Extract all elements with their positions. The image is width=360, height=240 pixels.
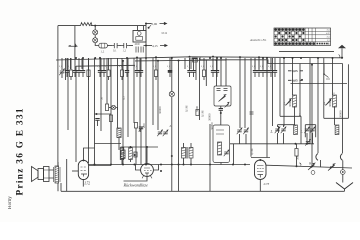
lower lead of resistor row A7 <box>88 77 90 81</box>
wire v x263 short <box>262 58 264 69</box>
output tube I (stadium) <box>78 160 88 179</box>
wire y147 horizontal <box>121 146 159 148</box>
lead of capacitor row D2 <box>193 58 195 70</box>
svg-text:0,1: 0,1 <box>268 66 271 68</box>
junction bus x318 <box>317 57 319 59</box>
wire tube I left stub <box>72 170 78 172</box>
lead of capacitor row A2 <box>66 58 68 70</box>
svg-text:0,1M: 0,1M <box>201 110 206 117</box>
svg-text:30000: 30000 <box>158 106 162 114</box>
tuning capacitor CT8 <box>310 127 316 134</box>
capacitor under can I <box>219 109 223 111</box>
wire v x128 mid <box>127 58 129 137</box>
capacitor row E1 <box>253 71 257 73</box>
junction lower 0,05 leader <box>301 79 303 81</box>
lower lead of resistor row D3 <box>203 77 205 81</box>
AVC line with corner <box>200 57 343 64</box>
wire tube II left pin <box>136 165 141 171</box>
lead of capacitor row D4 <box>212 58 214 70</box>
lead of trimmer capacitor row A <box>61 58 63 70</box>
junction bus x259 <box>258 56 260 58</box>
wire antenna branch down <box>342 168 344 170</box>
wire R7 down <box>135 128 137 165</box>
svg-text:0,06: 0,06 <box>152 22 158 27</box>
capacitor C5 below box <box>141 47 143 53</box>
wire v x280 <box>279 58 281 116</box>
resistor R8 <box>134 152 137 157</box>
coil L9 <box>129 148 133 160</box>
wire v x58 to output transformer <box>57 60 59 166</box>
svg-text:0,1: 0,1 <box>97 66 100 68</box>
capacitor row E4 <box>265 71 269 73</box>
lower lead of capacitor row B2 <box>103 72 105 77</box>
wire v x323.8 <box>323 58 325 99</box>
arrowhead of 4,15 lead <box>160 45 167 47</box>
wire arrow lead 0,06 <box>146 23 152 25</box>
coil inside can II <box>218 142 222 155</box>
wire L8 L9 bottoms <box>122 160 131 165</box>
junction bus x100 <box>99 57 101 59</box>
wire v x70.5 short <box>70 58 72 69</box>
tuning capacitor CT3 <box>237 128 243 135</box>
junction y164.5 x146 <box>145 164 147 166</box>
wire stub x320 lower <box>320 160 322 167</box>
coil L1 <box>117 128 121 138</box>
lower lead of capacitor row D5 <box>216 72 218 77</box>
wire v x318 to heater coil <box>317 58 319 153</box>
svg-text:0,5: 0,5 <box>122 96 127 100</box>
wire CT pair down <box>240 134 247 144</box>
wire tube II right pin <box>153 165 158 171</box>
variable inductor arrow L7 <box>323 99 332 107</box>
wire v x342.8 lower <box>342 161 344 168</box>
lead of capacitor row E5 <box>270 58 272 70</box>
capacitor row A5 <box>77 71 81 73</box>
wire v x294.5 coil bottom <box>294 107 296 125</box>
junction y164.5 x245 <box>244 164 246 166</box>
wire v x251 <box>250 58 252 157</box>
switch contact mark <box>149 25 151 28</box>
wire v x65.5 short lead <box>65 58 67 80</box>
resistor R5 mid <box>105 104 108 111</box>
resistor row A7 <box>87 70 90 77</box>
svg-text:Ansicht=Nr.: Ansicht=Nr. <box>249 38 267 42</box>
capacitor row D4 <box>211 71 215 73</box>
phone jack circle <box>311 171 315 175</box>
wire coil pair leads <box>184 143 192 165</box>
junction mid node <box>96 113 98 115</box>
switch squiggle right bottom <box>300 163 302 166</box>
bus third segment <box>76 64 135 67</box>
wire v x348.4 <box>347 64 349 118</box>
lower lead of trimmer capacitor row A <box>61 73 63 78</box>
earth symbol <box>336 183 353 190</box>
lead of resistor row C3 <box>155 58 157 70</box>
junction bus x95.2 <box>94 25 96 27</box>
wire v x324 short <box>323 64 325 75</box>
svg-text:0,1: 0,1 <box>153 66 156 68</box>
svg-text:0,1: 0,1 <box>252 66 255 68</box>
svg-text:0,05: 0,05 <box>292 69 298 73</box>
wire top horizontal after resistor <box>91 25 147 27</box>
capacitor row A4 <box>73 71 77 73</box>
tube socket table <box>274 28 331 46</box>
junction y164.5 x94.5 <box>94 164 96 166</box>
svg-text:0,1: 0,1 <box>113 50 117 53</box>
junction y164.5 x191 <box>190 164 192 166</box>
junction bus x189.5 <box>189 56 191 58</box>
pilot lamp La4 mid <box>169 92 174 97</box>
wire v x68 mid <box>67 58 69 130</box>
wire right varcap box <box>305 125 315 138</box>
junction y164.5 x161 <box>160 164 162 166</box>
tuning capacitor CT4 <box>243 128 249 135</box>
svg-text:4000: 4000 <box>135 43 141 46</box>
switch contact bottom a <box>308 163 315 170</box>
wire mains left drop <box>74 26 76 59</box>
svg-text:L72: L72 <box>84 181 91 185</box>
svg-text:0,1: 0,1 <box>260 66 263 68</box>
svg-text:0,1: 0,1 <box>134 66 137 68</box>
wire mid horizontal <box>95 113 112 115</box>
lead of capacitor row C2 <box>140 58 142 70</box>
junction y164.5 x233 <box>232 164 234 166</box>
svg-text:0,1: 0,1 <box>210 66 213 68</box>
svg-text:L: L <box>270 130 273 134</box>
label 0,05 upper with leader <box>288 69 303 73</box>
wire transformer bottom down <box>58 183 61 191</box>
resistor R9 right <box>295 149 298 157</box>
wire v x334.5 coil bottom <box>334 107 336 125</box>
svg-text:30: 30 <box>308 162 312 166</box>
svg-text:L: L <box>300 130 303 134</box>
junction bus x146 <box>145 45 147 47</box>
wire v x284 lower <box>283 116 285 126</box>
junction switch node <box>148 27 150 29</box>
capacitor row E5 <box>269 71 273 73</box>
lead of resistor row B4 <box>121 58 123 70</box>
capacitor row B5 <box>125 71 129 73</box>
wire v x206.3 <box>205 60 207 86</box>
lead of resistor row A3 <box>70 58 72 70</box>
rectifier tube III (stadium) <box>255 160 267 180</box>
wire tube I grid line right <box>89 165 111 167</box>
junction y164.5 x111 <box>110 164 112 166</box>
lower lead of capacitor row C4 (filled) <box>169 72 171 77</box>
wire speaker to transformer <box>49 170 54 178</box>
wire tuned circuit drops <box>278 125 313 144</box>
junction bus x171.8 <box>171 57 173 59</box>
svg-text:M 24: M 24 <box>162 32 168 35</box>
lower lead of capacitor row E2 <box>258 72 260 77</box>
rotated coil value labels right <box>201 101 343 161</box>
svg-text:Horny: Horny <box>8 196 13 209</box>
padder capacitor CT9 <box>305 139 311 146</box>
wire v x240 <box>239 58 241 128</box>
lead of capacitor row C4 (filled) <box>169 58 171 70</box>
lead of capacitor row A4 <box>74 58 76 70</box>
junction bus x137 <box>136 57 138 59</box>
coil pair L3/L4 with core <box>182 147 194 159</box>
junction at capacitor row E3 <box>262 57 264 59</box>
trimmer arrow at C11 <box>139 126 144 132</box>
resistor row B4 <box>120 70 123 77</box>
switch contact right upper <box>323 73 330 79</box>
junction bus x213 <box>212 56 214 58</box>
svg-text:L: L <box>298 113 301 117</box>
wire top horizontal to resistor <box>58 25 81 27</box>
svg-text:3000: 3000 <box>288 101 292 108</box>
junction bus x332.5 <box>332 57 334 59</box>
resistor row B3 <box>107 70 110 77</box>
lead of capacitor row C1 <box>136 58 138 70</box>
wire v x259 short <box>258 58 260 69</box>
wire lamp to earth <box>342 174 344 182</box>
wire R9 down <box>296 156 298 166</box>
junction y164.5 x134.5 <box>134 164 136 166</box>
svg-text:0,1: 0,1 <box>167 66 170 68</box>
junction y164.5 x210 <box>209 164 211 166</box>
wire v x245 <box>244 58 246 128</box>
wire v x171 upper <box>171 58 173 92</box>
wire lamp right <box>116 108 118 111</box>
wire L2 down <box>122 159 124 165</box>
wire v x178.5 long <box>178 61 180 192</box>
wire v x342.5 to heater coil <box>342 64 344 154</box>
resistor R10 left of can <box>196 110 199 116</box>
wire box right stub <box>144 45 153 47</box>
svg-text:30000: 30000 <box>210 122 214 130</box>
junction at capacitor row D5 <box>216 57 218 59</box>
junction bus x123 <box>122 60 124 62</box>
wire v x88.5 long <box>88 58 90 163</box>
lead of resistor row D3 <box>203 58 205 70</box>
wire v x226 to can I <box>225 58 227 86</box>
coil L2 <box>121 150 125 159</box>
wire v x301 lower <box>300 116 302 144</box>
wire v x111 long <box>110 58 112 165</box>
svg-text:0,1: 0,1 <box>201 66 204 68</box>
switch contact bottom b <box>328 164 335 171</box>
junction bus x158 <box>157 60 159 62</box>
wire transformer drop <box>145 24 147 59</box>
capacitor row A2 <box>65 71 69 73</box>
lower lead of capacitor row D2 <box>193 72 195 77</box>
coil L8 <box>120 148 124 160</box>
junction L9 top <box>130 146 132 148</box>
switch squiggle at antenna foot <box>339 55 340 58</box>
lead of capacitor row B2 <box>103 58 105 70</box>
junction under can I <box>220 112 222 114</box>
lower lead of capacitor row D4 <box>212 72 214 77</box>
wire earth to bottom bus <box>344 189 346 191</box>
component box on bus <box>192 58 197 62</box>
junction right bottom b <box>330 166 332 168</box>
wire v x255 short <box>254 58 256 69</box>
junction y164.5 x183.5 <box>183 164 185 166</box>
junction bus x312 <box>311 64 313 66</box>
wire v x278.5 lower <box>278 126 280 133</box>
capacitor row D5 <box>215 71 219 73</box>
lead of capacitor row A6 <box>82 58 84 70</box>
wire v x267 to tube III <box>266 58 268 158</box>
wire right loop bottom <box>324 117 349 119</box>
wire lamp branch <box>94 26 96 30</box>
arrowhead of 0,06 lead <box>160 23 167 25</box>
bus second segment <box>135 59 226 62</box>
wire v x82 short <box>81 58 83 69</box>
variable inductor arrow L6 <box>283 99 292 107</box>
rotated value labels middle <box>100 96 313 165</box>
svg-text:0,1: 0,1 <box>59 66 62 68</box>
wire v x171 lower <box>171 97 173 191</box>
junction tube II top on y147 <box>146 146 148 148</box>
lead of capacitor row B1 <box>99 58 101 70</box>
svg-text:31: 31 <box>333 92 336 95</box>
loudspeaker <box>32 167 50 182</box>
IF transformer can II <box>213 125 230 163</box>
wire v x117.5 to coil <box>117 58 119 128</box>
small component x251 <box>250 112 254 114</box>
resistor R7 <box>134 123 137 129</box>
wire R5 to lamp <box>109 107 112 109</box>
svg-text:30000: 30000 <box>339 110 343 118</box>
wire C10 down <box>97 120 99 126</box>
wire v x292.5 coil top <box>292 58 294 95</box>
junction tube I top cap <box>83 159 85 161</box>
wire v x158 to varcap <box>157 61 159 130</box>
junction y164.5 x178.5 <box>178 164 180 166</box>
lead of capacitor row E2 <box>258 58 260 70</box>
wire v x284 upper <box>283 58 285 116</box>
svg-text:L: L <box>169 124 172 128</box>
tuning capacitor CT2 <box>163 130 169 137</box>
lower lead of capacitor row D1 <box>189 72 191 77</box>
svg-text:0,1M: 0,1M <box>185 105 190 112</box>
lower lead of resistor row B3 <box>108 77 110 81</box>
junction bus x301 <box>300 57 302 59</box>
wire v x140 <box>139 58 141 132</box>
svg-text:30000: 30000 <box>207 113 211 121</box>
lower lead of capacitor row B1 <box>99 72 101 77</box>
svg-text:0,1: 0,1 <box>68 66 71 68</box>
lead of capacitor row E1 <box>254 58 256 70</box>
junction bus x95.2 <box>94 57 96 59</box>
capacitor row E6 <box>273 71 277 73</box>
wire v x220.8 between cans <box>220 106 222 125</box>
wire R9 top lead <box>296 144 298 149</box>
wire C1 to C2 <box>107 45 112 47</box>
lower lead of capacitor row C2 <box>140 72 142 77</box>
wire C2 to C3 <box>119 45 122 47</box>
wire v x210 lower <box>209 124 211 191</box>
IF transformer can I <box>214 86 231 106</box>
capacitor row B2 <box>102 71 106 73</box>
wire v x216.5 <box>216 60 218 86</box>
wire v x221 to can I <box>220 58 222 86</box>
svg-text:0,1: 0,1 <box>187 66 190 68</box>
wire v x233.5 can to y164.5 <box>233 144 235 165</box>
junction at capacitor row B5 <box>126 57 128 59</box>
lead of capacitor row D5 <box>216 58 218 70</box>
svg-text:4,15: 4,15 <box>152 44 158 49</box>
capacitor row D2 <box>191 71 195 73</box>
wire tube II top lead <box>146 147 148 164</box>
svg-text:50: 50 <box>100 97 104 101</box>
wire tube I bottom lead <box>82 180 84 187</box>
mains entry box (fuse holder) <box>133 31 146 43</box>
junction bus x146 <box>145 57 147 59</box>
capacitor C10 mid-left <box>95 119 99 121</box>
junction x134 y155 <box>134 154 136 156</box>
lower lead of capacitor row C1 <box>136 72 138 77</box>
svg-text:2/73: 2/73 <box>264 182 270 186</box>
capacitor row B1 <box>98 71 102 73</box>
svg-text:0,1M: 0,1M <box>250 148 255 155</box>
junction bus x221 <box>220 57 222 59</box>
capacitor C3 <box>122 43 129 48</box>
lower lead of capacitor row A4 <box>74 72 76 77</box>
junction bus x178.5 <box>178 60 180 62</box>
lower lead of resistor row B4 <box>121 77 123 81</box>
junction bus x210 <box>209 57 211 59</box>
wire v x332.5 coil top <box>332 58 334 95</box>
svg-text:0,1: 0,1 <box>119 66 122 68</box>
junction bus x76 <box>75 57 77 59</box>
resistor row D3 <box>202 70 205 77</box>
junction y164.5 x123 <box>122 164 124 166</box>
wire L1 down <box>118 138 120 151</box>
wire v x196 <box>195 58 197 80</box>
junction bus x240 <box>239 56 241 58</box>
svg-text:1,2: 1,2 <box>101 50 105 55</box>
junction antenna foot <box>341 57 343 59</box>
lower lead of capacitor row E4 <box>266 72 268 77</box>
wire box risers <box>138 26 144 31</box>
lower lead of resistor row A3 <box>70 77 72 81</box>
triode tube II (circle) <box>141 164 154 179</box>
capacitor row A6 <box>81 71 85 73</box>
wire right bottom horizontal <box>266 165 352 168</box>
junction y143.8 a <box>295 143 297 145</box>
resistor R6 mid <box>109 115 112 122</box>
lower lead of capacitor row E3 <box>262 72 264 77</box>
junction R9 on bottom line <box>296 165 298 167</box>
oscillator coil L6 upper <box>293 95 297 107</box>
lower lead of capacitor row A5 <box>78 72 80 77</box>
wire R6 down <box>110 122 112 165</box>
electrolytic capacitor C1 (barrel) <box>99 43 108 48</box>
pilot lamp La3 <box>111 105 115 109</box>
wire v x76 to tube I <box>75 66 77 162</box>
wire v x101 <box>100 58 102 131</box>
svg-text:200: 200 <box>142 123 146 128</box>
resistor row C3 <box>154 70 157 77</box>
lower lead of capacitor row B5 <box>126 72 128 77</box>
junction bus x156 <box>155 56 157 58</box>
wire horizontal y83.5 right <box>291 83 348 85</box>
svg-text:Rückwandlitze: Rückwandlitze <box>123 183 149 188</box>
capacitor row C4 (filled) <box>168 71 172 73</box>
wire far-left drop <box>57 26 59 60</box>
lead of resistor row B3 <box>108 58 110 70</box>
wire v x310 long <box>309 58 311 144</box>
wire v x272.5 <box>272 58 274 126</box>
lead of capacitor row E3 <box>262 58 264 70</box>
wire v x323.8 lower <box>323 99 325 118</box>
lead of capacitor row E6 <box>274 58 276 70</box>
wire v x123 to coil2 <box>122 61 124 150</box>
